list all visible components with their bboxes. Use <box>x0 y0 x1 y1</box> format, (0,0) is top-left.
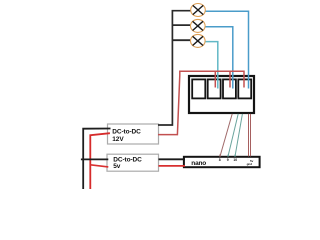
relay 1 <box>192 79 205 98</box>
lamp L2 <box>191 19 206 32</box>
svg-text:10: 10 <box>233 158 237 162</box>
wire: red drop to relay 2 <box>214 71 216 87</box>
lamp L3 <box>191 34 206 47</box>
arduino nano U1 <box>184 157 260 167</box>
svg-text:8: 8 <box>219 158 221 162</box>
arrowhead pin 9 <box>227 154 229 157</box>
wire: signal relay IN to nano pin 8 <box>220 114 232 156</box>
wire: red supply input to 12V converter <box>90 133 110 189</box>
svg-text:5v: 5v <box>113 163 121 170</box>
wire: teal lamp L3 to relay 2 <box>205 42 218 89</box>
svg-text:9: 9 <box>227 158 229 162</box>
wire: blue lamp L2 to relay 3 <box>205 27 233 89</box>
svg-text:gnd: gnd <box>247 162 253 166</box>
wire: red relay 5v to nano <box>248 114 250 156</box>
wire: black supply input to 12V converter <box>83 129 110 190</box>
wire: red 12V supply from converter to relay commons <box>158 71 244 134</box>
relay module K1 (4-channel relay board) <box>189 76 254 113</box>
arrowhead pin 10 <box>234 154 236 157</box>
DC-to-DC converter 5v (PS2) <box>107 154 159 171</box>
relay 3 <box>223 79 236 98</box>
wire: blue lamp L1 to relay 4 <box>205 11 249 88</box>
relay 2 <box>208 79 221 98</box>
wire: black 5v converter output to nano <box>159 158 186 160</box>
DC-to-DC converter 12V (PS1) <box>108 124 159 144</box>
svg-text:12V: 12V <box>112 136 124 143</box>
lamp L1 <box>191 4 206 17</box>
wire: black supply branch to 5v converter <box>81 158 108 160</box>
wire: red supply branch to 5v converter <box>90 165 108 167</box>
wire: signal relay IN to nano pin 9 <box>228 114 238 156</box>
wire: black stub bus to lamp L3 <box>172 39 191 41</box>
arrowhead pin 8 <box>219 154 221 157</box>
wire: red 5v converter output to nano <box>159 165 186 167</box>
wire: signal relay IN to nano pin 10 <box>235 114 242 156</box>
wire: red drop to relay 3 <box>229 71 231 87</box>
svg-text:DC-to-DC: DC-to-DC <box>112 129 141 136</box>
wire: black ground bus from lamps down to 12V converter output <box>158 11 191 125</box>
wire: red relay gnd to nano <box>250 114 252 156</box>
svg-text:nano: nano <box>191 160 206 167</box>
wire: black stub bus to lamp L2 <box>172 24 191 26</box>
relay 4 <box>238 79 251 98</box>
